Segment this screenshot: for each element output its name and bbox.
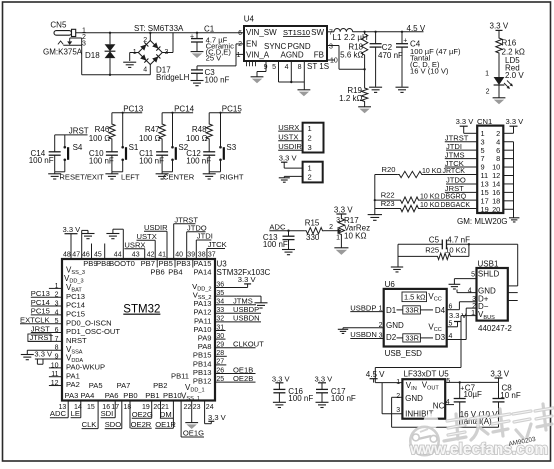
watermark www.elecfans.com <box>409 441 548 458</box>
net JTMS (CN1 pin7) <box>445 150 477 159</box>
svg-text:100 nF: 100 nF <box>205 76 230 85</box>
USB1 right stubs <box>508 293 518 301</box>
svg-text:1: 1 <box>308 124 312 133</box>
connector (3-pin serial) <box>303 123 324 153</box>
svg-text:D18: D18 <box>85 51 100 60</box>
svg-text:100 nF: 100 nF <box>263 240 288 249</box>
switch S4 <box>64 135 83 172</box>
watermark logo circle <box>410 414 438 456</box>
net PC13 (pin2) <box>31 289 62 298</box>
IC U6 USB_ESD <box>384 280 447 346</box>
wire pin30 stub <box>215 338 226 340</box>
connector CN5 (power jack) <box>50 20 86 47</box>
svg-text:PC15: PC15 <box>222 104 243 113</box>
U6 pin6 number <box>449 303 453 310</box>
wire / ground (2-pin connector) <box>279 176 303 182</box>
svg-text:3.3 V: 3.3 V <box>490 22 509 31</box>
net USTX (pin42) <box>137 232 157 259</box>
svg-text:440247-2: 440247-2 <box>478 324 512 333</box>
label 440247-2 <box>478 324 512 333</box>
net CENTER <box>163 173 195 182</box>
svg-text:3.3 V: 3.3 V <box>449 311 468 320</box>
U3 right pin numbers and names <box>192 281 224 385</box>
svg-text:100 nF: 100 nF <box>288 394 313 403</box>
ground (C1) <box>191 52 204 58</box>
svg-text:BOOT0: BOOT0 <box>109 259 135 268</box>
wire / ground RIGHT <box>203 172 221 179</box>
svg-text:GND: GND <box>405 394 423 403</box>
net JTRST (pin40) <box>174 215 199 259</box>
capacitor C5 <box>398 235 470 249</box>
net USRX (pin43) <box>124 240 145 259</box>
wire U4 pin9 to ground <box>257 61 266 77</box>
net ADC (pin13) <box>50 401 68 419</box>
resistor R16 <box>496 36 525 56</box>
svg-text:22: 22 <box>184 404 192 411</box>
svg-text:2: 2 <box>396 393 400 400</box>
net SDO (pin17) <box>105 401 122 430</box>
wire pin27 stub <box>215 364 226 366</box>
net USBDP (pin33) <box>215 305 261 314</box>
svg-text:3: 3 <box>308 143 312 152</box>
wire VSSA (pin8) to ground <box>27 350 62 354</box>
svg-text:47: 47 <box>72 251 80 258</box>
svg-text:10: 10 <box>330 58 338 65</box>
svg-text:3.3 V: 3.3 V <box>63 225 82 234</box>
svg-text:GM:K375A: GM:K375A <box>43 48 83 57</box>
net 3.3 V (pin48 VDD_3) <box>63 225 82 259</box>
svg-text:5: 5 <box>272 64 276 71</box>
wire VDD_2 pin36 to 3.3V <box>215 284 248 288</box>
svg-text:USDIR: USDIR <box>144 223 168 232</box>
svg-text:OE1R: OE1R <box>155 420 176 429</box>
net CLKOUT (pin29) <box>215 340 264 349</box>
svg-text:PA14: PA14 <box>193 268 211 277</box>
net PC14 (pin3) <box>31 298 62 307</box>
net 3.3 V (CN1 pin1) <box>456 117 478 133</box>
net OE2B (pin25) <box>215 374 256 383</box>
svg-text:42: 42 <box>147 251 155 258</box>
svg-text:PD1_OSC-OUT: PD1_OSC-OUT <box>66 327 120 336</box>
net PC14 (button column) <box>162 104 195 113</box>
svg-text:3.3 V: 3.3 V <box>272 374 291 383</box>
svg-text:1: 1 <box>237 52 241 59</box>
svg-text:R16: R16 <box>502 39 517 48</box>
capacitor C16 <box>273 387 313 403</box>
wire / ground RESET <box>48 172 65 179</box>
net 3.3 V (pin24 VDD_1) <box>205 401 227 424</box>
CN5 switch-pin arrow <box>58 38 72 45</box>
svg-text:3.3 V: 3.3 V <box>315 374 334 383</box>
svg-text:3.3 V: 3.3 V <box>490 369 509 378</box>
svg-text:USTX: USTX <box>278 133 298 142</box>
svg-text:19: 19 <box>481 205 489 214</box>
svg-text:AGND: AGND <box>281 50 304 59</box>
svg-text:DM: DM <box>160 410 172 419</box>
labels C3 100nF <box>205 68 230 84</box>
wire / ground LEFT <box>105 172 122 179</box>
svg-text:PC13: PC13 <box>123 104 144 113</box>
wire U6 pin2 to ground <box>343 322 384 329</box>
net JTDO (pin39) <box>187 223 207 259</box>
svg-text:43: 43 <box>132 251 140 258</box>
wire R15 to R17 wiper <box>324 224 341 233</box>
net OE1B (pin26) <box>215 365 256 374</box>
svg-text:PA1: PA1 <box>66 371 80 380</box>
svg-text:20: 20 <box>492 205 500 214</box>
wire / ground CENTER <box>156 172 173 179</box>
resistor 33R (upper) <box>397 305 434 314</box>
svg-text:6: 6 <box>449 303 453 310</box>
svg-text:4: 4 <box>468 288 472 295</box>
svg-text:DBGACK: DBGACK <box>441 202 471 209</box>
labels C4 100uF <box>410 40 461 76</box>
svg-text:2: 2 <box>308 172 312 181</box>
svg-text:PC13: PC13 <box>31 289 50 298</box>
wire U4 pin3/FB to divider <box>327 46 365 70</box>
label USB_ESD <box>385 349 423 358</box>
labels U3 STM32Fx103C <box>217 260 271 277</box>
net USBDN (pin32) <box>215 314 261 323</box>
svg-text:3.3 V: 3.3 V <box>456 117 475 126</box>
svg-text:10 KΩ: 10 KΩ <box>445 246 467 255</box>
svg-text:6: 6 <box>238 30 242 37</box>
svg-text:3: 3 <box>165 49 169 56</box>
net 3.3 V (C16) <box>272 374 291 389</box>
svg-text:1: 1 <box>336 234 340 241</box>
ground (C16) <box>273 402 286 407</box>
svg-text:25 V: 25 V <box>206 53 223 62</box>
wire 4.5V rail <box>353 31 424 33</box>
resistor R46 <box>89 113 115 144</box>
svg-text:45: 45 <box>94 251 102 258</box>
svg-text:1: 1 <box>396 379 400 386</box>
svg-text:PD0_O-ISCN: PD0_O-ISCN <box>66 318 112 327</box>
resistor R25 <box>398 243 470 260</box>
svg-text:4.7 nF: 4.7 nF <box>447 235 470 244</box>
wire CN5 pin2 <box>70 37 82 39</box>
svg-text:PC14: PC14 <box>66 301 85 310</box>
svg-text:3.3 V: 3.3 V <box>506 117 525 126</box>
ground (U6 GND) <box>338 329 348 333</box>
svg-text:PC14: PC14 <box>31 298 50 307</box>
svg-text:LE: LE <box>71 409 80 418</box>
svg-text:PA6: PA6 <box>105 391 119 400</box>
svg-text:R48: R48 <box>192 125 207 134</box>
ground (C4) <box>396 87 409 92</box>
wire BOOT0 pin44 to ground <box>113 229 123 259</box>
svg-text:JRTCK: JRTCK <box>443 168 466 175</box>
net LE (pin14) <box>71 401 81 419</box>
svg-text:39: 39 <box>187 251 195 258</box>
svg-text:100 Ω: 100 Ω <box>89 134 111 143</box>
svg-text:100 nF: 100 nF <box>331 394 356 403</box>
ground (C3) <box>191 81 204 86</box>
svg-text:1: 1 <box>485 70 489 77</box>
regulator U5 LF33xDT <box>396 370 450 419</box>
ground (VSS_2) <box>255 303 268 308</box>
svg-text:FB: FB <box>314 50 324 59</box>
capacitor C8 <box>493 382 521 427</box>
resistor R20 JRTCK <box>375 165 477 178</box>
net JTRST (CN1 pin3) <box>445 133 477 142</box>
svg-text:NC: NC <box>433 401 445 410</box>
net RIGHT <box>220 173 244 182</box>
svg-text:100 nF: 100 nF <box>29 156 54 165</box>
net USBDP (U6 pin1) <box>350 303 383 312</box>
svg-text:470 nF: 470 nF <box>378 51 403 60</box>
wire D- to U6 pin4 <box>447 308 477 339</box>
U3 left pin stub wires <box>49 288 62 385</box>
svg-text:R46: R46 <box>95 125 110 134</box>
wires CN1 even pins to ground bus <box>503 142 513 218</box>
svg-text:1: 1 <box>308 164 312 173</box>
ground (SHLD) <box>449 284 461 289</box>
ground (CN1 even pins) <box>509 218 519 222</box>
svg-text:JTCK: JTCK <box>445 159 464 168</box>
svg-text:VIN_SW: VIN_SW <box>246 28 277 37</box>
svg-text:NRST: NRST <box>66 336 87 345</box>
svg-text:CLK: CLK <box>82 420 97 429</box>
svg-text:2: 2 <box>308 134 312 143</box>
capacitor C10 <box>89 141 118 172</box>
ground (C5/R25) <box>391 267 403 272</box>
resistor 1.5 kOhm (boxed) <box>402 292 427 302</box>
net JRST (pin6) <box>31 324 62 333</box>
net JTMS (pin34) <box>215 297 256 306</box>
svg-text:USBDN: USBDN <box>350 330 377 339</box>
net CLK (pin15) <box>82 401 99 430</box>
svg-text:RIGHT: RIGHT <box>220 173 244 182</box>
watermark chinese glyph strokes <box>444 404 553 441</box>
svg-text:5.6 kΩ: 5.6 kΩ <box>340 51 363 60</box>
U3 bottom pin numbers <box>59 404 214 411</box>
svg-text:PB6: PB6 <box>150 268 164 277</box>
svg-text:EXTCLK: EXTCLK <box>20 315 50 324</box>
resistor R18 <box>340 31 368 71</box>
LED LD5 <box>485 55 524 98</box>
svg-text:1: 1 <box>133 49 137 56</box>
svg-text:R25: R25 <box>425 246 439 255</box>
svg-text:R15: R15 <box>305 218 320 227</box>
wire U4 pins 5/4/8 to ground <box>279 61 305 90</box>
U4 pin numbers <box>237 30 338 71</box>
svg-text:3: 3 <box>379 333 383 340</box>
svg-text:SW: SW <box>311 28 324 37</box>
svg-text:2: 2 <box>329 224 333 231</box>
wire VBUS to 4.5V <box>375 316 476 383</box>
net 3.3 V (R17 top) <box>334 205 353 216</box>
svg-text:PA4: PA4 <box>81 391 95 400</box>
svg-text:PA7: PA7 <box>117 381 131 390</box>
svg-text:2: 2 <box>143 37 147 44</box>
svg-text:PC15: PC15 <box>31 307 50 316</box>
U3 left pin numbers and names <box>51 283 121 389</box>
svg-text:C1: C1 <box>204 25 215 34</box>
net 3.3 V (C17) <box>315 374 334 389</box>
svg-text:U4: U4 <box>244 14 255 23</box>
switch S3 <box>219 113 237 172</box>
svg-text:JTRST: JTRST <box>30 333 54 342</box>
capacitor C1 <box>190 32 203 52</box>
net 3.3 V (2-pin connector) <box>279 154 303 169</box>
svg-text:3.3 V: 3.3 V <box>279 154 298 163</box>
svg-text:USB_ESD: USB_ESD <box>385 349 423 358</box>
svg-text:10 KΩ: 10 KΩ <box>344 231 366 240</box>
svg-text:USBDN: USBDN <box>233 314 260 323</box>
svg-text:D4: D4 <box>435 306 446 315</box>
wire pin31 stub <box>215 330 226 332</box>
svg-text:BridgeLH: BridgeLH <box>156 73 190 82</box>
U3 top pin numbers <box>63 251 216 258</box>
capacitor C11 <box>139 141 168 172</box>
svg-text:LF33xDT U5: LF33xDT U5 <box>404 370 450 379</box>
capacitor C17 <box>316 387 356 403</box>
ground (C2) <box>369 87 382 92</box>
connector (2-pin) <box>303 162 323 183</box>
svg-text:PC13: PC13 <box>66 292 85 301</box>
svg-text:PC14: PC14 <box>174 104 195 113</box>
ground (R19) <box>358 107 371 113</box>
net 4.5 V <box>407 24 426 33</box>
svg-text:4.5 V: 4.5 V <box>407 24 426 33</box>
net 4.5 V (LF33 input) <box>366 370 385 383</box>
net JTDI (CN1 pin5) <box>446 142 477 151</box>
svg-text:DBGRQ: DBGRQ <box>441 194 467 201</box>
net JRST (reset button) <box>55 127 89 136</box>
svg-text:48: 48 <box>63 251 71 258</box>
net JTDO (CN1 pin13) <box>446 176 477 185</box>
svg-text:PC15: PC15 <box>66 309 85 318</box>
svg-text:3: 3 <box>336 217 340 224</box>
labels C7 16V Tantal <box>460 410 501 426</box>
svg-text:D1: D1 <box>386 306 397 315</box>
svg-text:S1: S1 <box>129 143 139 152</box>
svg-text:PA3: PA3 <box>65 391 79 400</box>
svg-text:1.5 kΩ: 1.5 kΩ <box>404 292 426 301</box>
net 3.3 V (CN1 pin2) <box>503 117 524 133</box>
svg-text:5: 5 <box>471 271 475 278</box>
net PC15 (button column) <box>209 104 242 113</box>
svg-text:ADC: ADC <box>50 409 67 418</box>
svg-text:CLKOUT: CLKOUT <box>233 340 264 349</box>
net DM (pin20) <box>160 401 174 419</box>
svg-text:4: 4 <box>285 64 289 71</box>
net OE2G (pin19) <box>132 401 153 419</box>
U6 pin4 number <box>449 333 453 340</box>
ground (pin47 VSS_3) <box>82 234 95 239</box>
svg-text:33R: 33R <box>405 305 419 314</box>
svg-text:PA5: PA5 <box>89 381 103 390</box>
wire D+ to U6 pin6 <box>447 302 477 310</box>
svg-text:LEFT: LEFT <box>121 173 140 182</box>
svg-text:100 nF: 100 nF <box>89 156 114 165</box>
svg-text:R47: R47 <box>145 125 160 134</box>
U3 bottom inside port labels <box>65 372 205 403</box>
net 3.3 V (LF33 out) <box>490 369 509 382</box>
svg-text:8: 8 <box>298 64 302 71</box>
svg-text:OE2B: OE2B <box>233 374 253 383</box>
ground (U4 pin9) <box>251 77 264 83</box>
net 3.3 V (VDDA pin9) <box>34 350 62 365</box>
svg-text:10 KΩ: 10 KΩ <box>422 168 442 175</box>
svg-text:SHLD: SHLD <box>478 270 500 279</box>
net RESET/EXIT <box>59 173 104 182</box>
wire pin23 to ground <box>191 401 193 423</box>
net OE2R (pin18) <box>130 401 152 429</box>
svg-text:USBDP: USBDP <box>350 303 376 312</box>
net USBDN (U6 pin3) <box>350 330 383 339</box>
net 3.3 V (U6 VCC pin5) <box>447 311 468 328</box>
svg-text:JRST: JRST <box>445 184 464 193</box>
resistor 33R (lower) <box>397 333 434 342</box>
svg-text:S3: S3 <box>226 143 236 152</box>
TVS diode D18 <box>85 32 115 76</box>
svg-text:USRX: USRX <box>278 123 299 132</box>
wire NC stub <box>445 404 454 406</box>
label AM90203 <box>508 436 537 448</box>
capacitor C7 <box>454 381 482 427</box>
net JRST (CN1 pin15) <box>445 184 477 193</box>
U3 top inside port labels <box>83 259 211 277</box>
capacitor C3 <box>191 66 203 80</box>
wire bottom return <box>82 38 151 75</box>
capacitor C12 <box>186 141 215 172</box>
svg-text:PB1: PB1 <box>145 391 159 400</box>
svg-text:OE2G: OE2G <box>132 410 153 419</box>
net ADC <box>269 222 304 232</box>
svg-text:2.0 V: 2.0 V <box>505 71 524 80</box>
svg-text:+: + <box>403 38 407 45</box>
svg-text:PA2: PA2 <box>66 380 80 389</box>
svg-text:1: 1 <box>379 306 383 313</box>
svg-text:15: 15 <box>87 404 95 411</box>
wire CN5 pin3 <box>63 44 81 46</box>
svg-text:CN5: CN5 <box>50 20 67 29</box>
connector CN1 <box>477 117 503 214</box>
net USDIR <box>278 142 302 151</box>
net OE1R (pin21) <box>155 401 176 429</box>
svg-text:100 nF: 100 nF <box>186 156 211 165</box>
label GM:K375A <box>43 48 83 57</box>
svg-text:10µF: 10µF <box>464 390 483 399</box>
svg-text:41: 41 <box>158 251 166 258</box>
svg-text:37: 37 <box>208 251 216 258</box>
svg-text:OE2R: OE2R <box>131 420 152 429</box>
ground (bridge pin1) <box>123 62 136 67</box>
svg-text:330: 330 <box>306 233 320 242</box>
svg-text:40: 40 <box>175 251 183 258</box>
net PC13 (button column) <box>112 104 144 113</box>
ground (VSS_1) <box>185 423 198 429</box>
switch S2 <box>171 113 189 172</box>
capacitor C4 <box>396 31 408 87</box>
resistor R22 DBGRQ <box>375 190 477 203</box>
ground (C13) <box>282 250 295 255</box>
inductor L1 <box>327 28 368 42</box>
net 3.3V (LED) <box>490 22 509 36</box>
wire C3 to U4 VIN_A/EN <box>197 44 244 66</box>
svg-text:1.2 kΩ: 1.2 kΩ <box>339 94 362 103</box>
svg-text:10 nF: 10 nF <box>500 391 521 400</box>
label GM: MLW20G <box>457 217 508 226</box>
regulator U4 ST1S10 <box>244 14 327 61</box>
net OE1G (pin22) <box>181 401 204 438</box>
capacitor C2 <box>370 31 403 87</box>
wire CN5 pin1 to rail <box>76 32 244 34</box>
wire VOUT 3.3V rail <box>445 381 498 383</box>
svg-text:ST: SM6T33A: ST: SM6T33A <box>134 24 184 33</box>
